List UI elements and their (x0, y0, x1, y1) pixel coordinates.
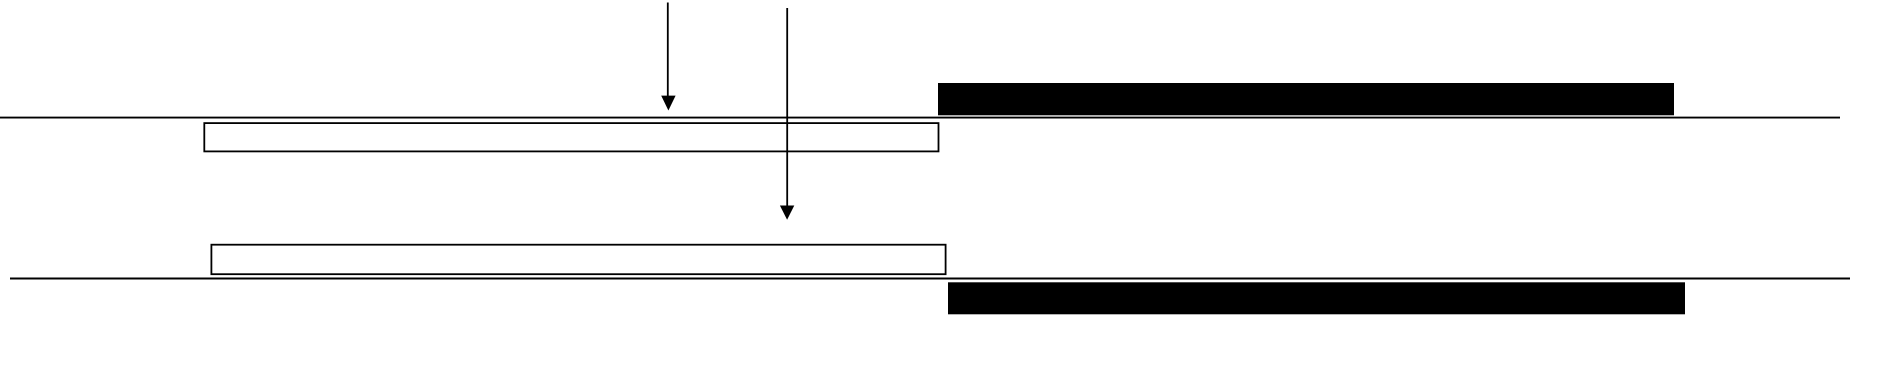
arrow A2 shaft (786, 8, 788, 207)
genome line 1 (0, 117, 1840, 119)
outlined clone box 2 (211, 245, 945, 275)
genome line 2 (10, 278, 1850, 280)
arrow A1 head (661, 96, 675, 111)
outlined clone box 1 (204, 123, 938, 151)
arrow A2 head (780, 206, 794, 220)
filled hit bar 2 (948, 282, 1685, 314)
filled hit bar 1 (938, 83, 1674, 115)
arrow A1 shaft (667, 3, 669, 98)
